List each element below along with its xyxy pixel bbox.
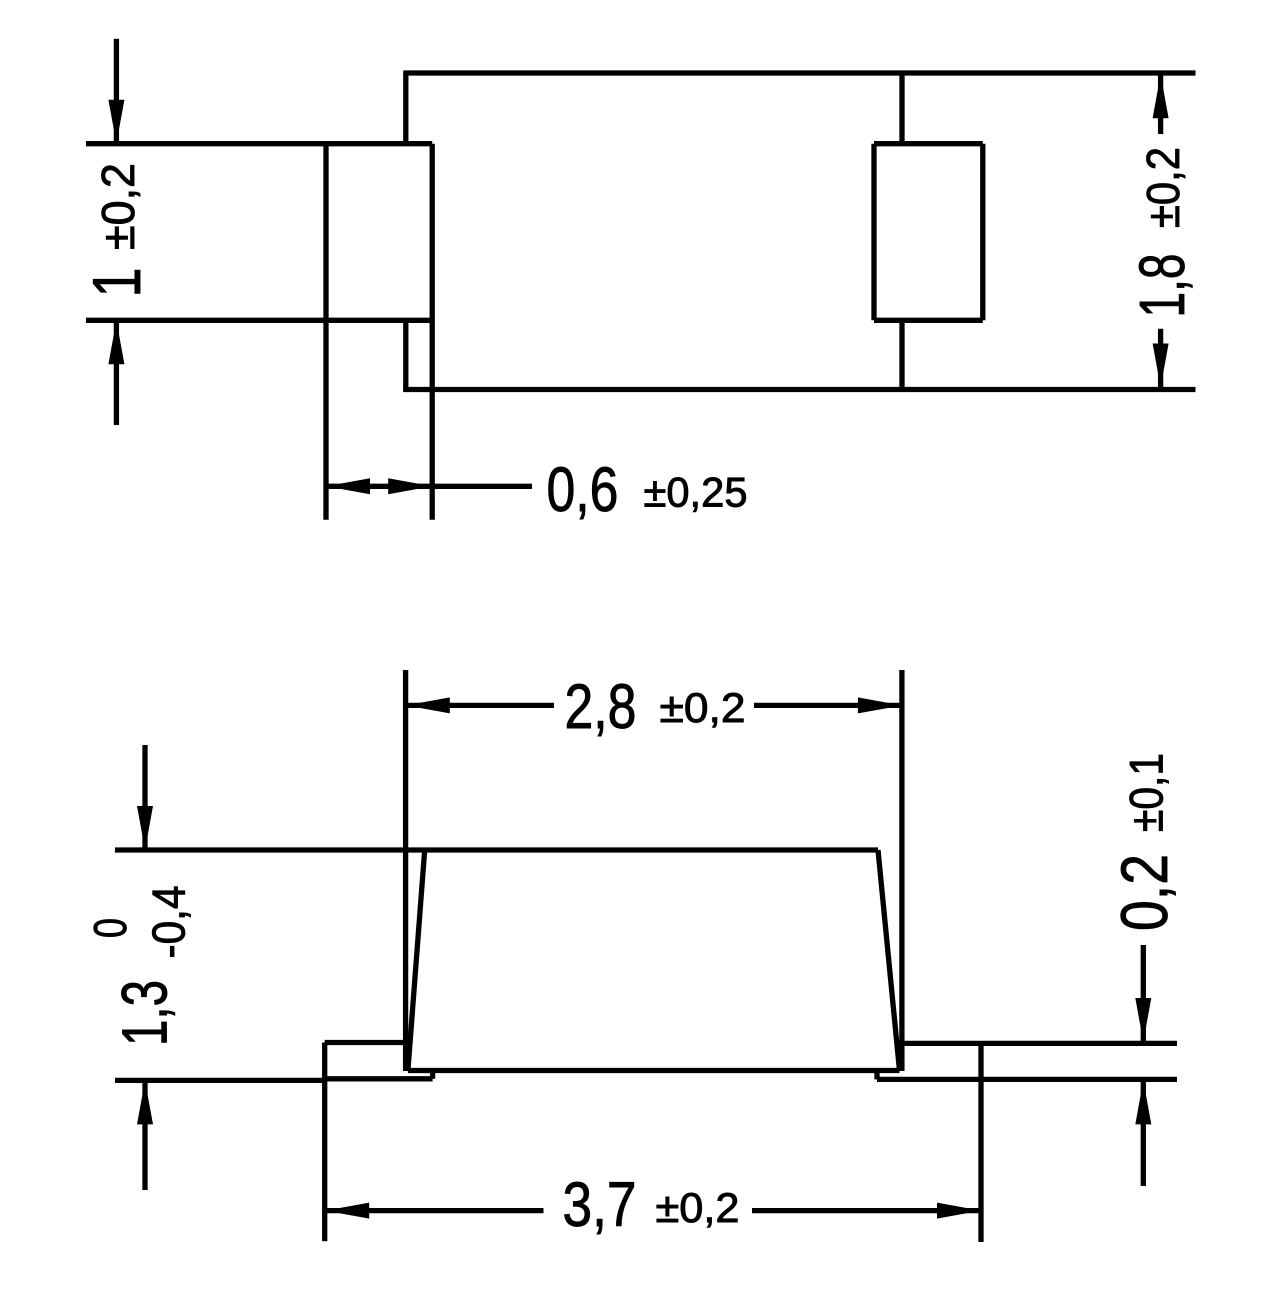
svg-text:3,7: 3,7 xyxy=(563,1170,637,1240)
svg-text:±0,2: ±0,2 xyxy=(1137,147,1189,228)
svg-text:±0,2: ±0,2 xyxy=(660,684,746,731)
svg-text:0: 0 xyxy=(84,918,136,938)
svg-text:±0,25: ±0,25 xyxy=(644,469,748,516)
svg-text:0,6: 0,6 xyxy=(547,455,619,525)
svg-text:-0,4: -0,4 xyxy=(143,886,195,959)
svg-text:±0,1: ±0,1 xyxy=(1120,753,1173,832)
svg-text:1: 1 xyxy=(79,268,155,298)
svg-text:±0,2: ±0,2 xyxy=(656,1184,740,1231)
svg-text:1,3: 1,3 xyxy=(109,980,181,1046)
svg-text:1,8: 1,8 xyxy=(1126,254,1198,318)
svg-text:2,8: 2,8 xyxy=(565,672,637,742)
svg-text:±0,2: ±0,2 xyxy=(92,163,144,250)
svg-text:0,2: 0,2 xyxy=(1107,854,1181,931)
